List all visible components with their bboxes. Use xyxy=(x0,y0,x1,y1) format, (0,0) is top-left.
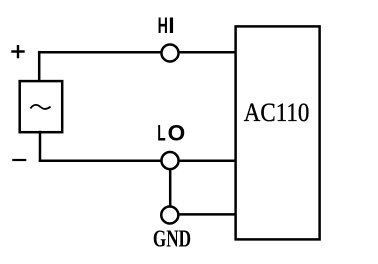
AC source box xyxy=(20,81,63,132)
wire: GND line to AC110 box xyxy=(170,213,235,216)
terminal circle GND xyxy=(161,206,178,223)
wire: LO line from source to AC110 box xyxy=(40,160,235,163)
wire: plus stub down to source box xyxy=(38,52,41,80)
AC sine-wave symbol inside source xyxy=(31,105,50,109)
svg-text:H: H xyxy=(158,13,168,38)
plus terminal label xyxy=(11,45,24,58)
svg-text:GND: GND xyxy=(153,226,191,252)
svg-text:L: L xyxy=(157,121,165,146)
svg-text:O: O xyxy=(168,121,186,146)
wire: junction LO node to GND node xyxy=(169,161,172,215)
terminal circle LO xyxy=(161,152,178,169)
svg-text:I: I xyxy=(168,13,174,38)
minus terminal label xyxy=(12,159,26,161)
wire: HI line from plus to AC110 box xyxy=(39,51,235,54)
AC110 device box xyxy=(236,26,320,239)
terminal circle HI xyxy=(161,44,178,61)
svg-text:AC110: AC110 xyxy=(244,98,309,127)
wire: source box bottom stub xyxy=(39,132,42,161)
